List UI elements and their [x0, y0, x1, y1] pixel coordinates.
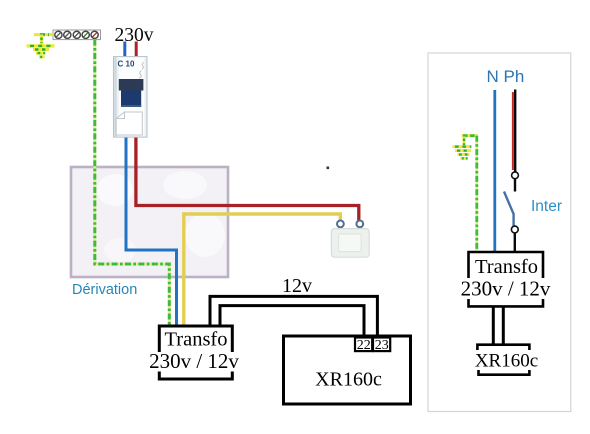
- terminal 23: [373, 338, 390, 353]
- wire: Ph black lower to transfo: [514, 233, 516, 252]
- svg-text:N Ph: N Ph: [487, 67, 525, 86]
- svg-text:22: 22: [357, 338, 371, 353]
- svg-text:XR160c: XR160c: [315, 369, 382, 391]
- wire: N blue (right panel): [493, 90, 496, 252]
- svg-text:Transfo: Transfo: [475, 256, 538, 278]
- right panel frame: [428, 53, 571, 412]
- circuit breaker Q1 (C10): [114, 57, 148, 138]
- svg-text:C 10: C 10: [118, 60, 135, 69]
- terminal screw 3: [73, 31, 80, 38]
- wire: Ph red underlay (right panel): [512, 92, 514, 170]
- receiver XR160c (right) box: [477, 345, 529, 375]
- svg-text:Dérivation: Dérivation: [72, 282, 137, 298]
- wire: earth green-yellow from terminal block to transfo: [95, 40, 170, 326]
- terminal screw 5: [91, 31, 98, 38]
- terminal 22: [355, 338, 372, 353]
- svg-text:Inter: Inter: [531, 198, 562, 215]
- ground symbol (left): [27, 35, 55, 57]
- wire: Ph black upper (right panel): [514, 90, 516, 172]
- wire: 12v pair left (right panel): [492, 306, 495, 344]
- terminal block TB1: [53, 30, 101, 40]
- transformer T1 (left) box: [159, 326, 232, 379]
- switch Inter: lever: [504, 192, 514, 227]
- switch Inter: top contact: [512, 172, 519, 179]
- wire: 12v inner (to terminal 22): [220, 306, 364, 337]
- switch Inter: bottom contact: [511, 226, 518, 233]
- svg-text:Transfo: Transfo: [164, 329, 227, 351]
- wire: yellow return from switch to transfo: [184, 214, 340, 326]
- wire: earth link to terminal block: [34, 33, 53, 36]
- wire: earth green-yellow down to transfo (right): [475, 136, 478, 252]
- svg-text:12v: 12v: [282, 275, 312, 297]
- wall switch S1: [331, 221, 369, 258]
- wire: 12v outer (to terminal 23): [210, 296, 377, 337]
- transformer T2 (right) box: [469, 252, 544, 306]
- svg-text:230v: 230v: [115, 25, 154, 46]
- wire: phase stub above breaker (red Ph): [135, 42, 138, 59]
- ground symbol (right): [453, 137, 473, 159]
- terminal screw 4: [82, 31, 89, 38]
- wire: earth bar to down lead (right): [462, 134, 479, 137]
- svg-text:23: 23: [375, 338, 389, 353]
- receiver XR160c (left) box: [284, 336, 411, 404]
- wire: blue N from breaker to transfo via derivation: [126, 135, 177, 326]
- svg-text:XR160c: XR160c: [475, 351, 538, 372]
- wire: red Ph from breaker to switch: [136, 135, 359, 222]
- terminal screw 2: [64, 31, 71, 38]
- spot artifact: [327, 167, 330, 170]
- wire: stub below top contact: [514, 179, 516, 192]
- derivation junction box: [71, 167, 228, 277]
- svg-text:230v / 12v: 230v / 12v: [149, 349, 239, 373]
- svg-text:230v / 12v: 230v / 12v: [461, 277, 551, 301]
- wire: phase stub above breaker (blue N): [123, 42, 126, 59]
- wire: 12v pair right (right panel): [502, 306, 505, 344]
- terminal screw 1: [55, 31, 62, 38]
